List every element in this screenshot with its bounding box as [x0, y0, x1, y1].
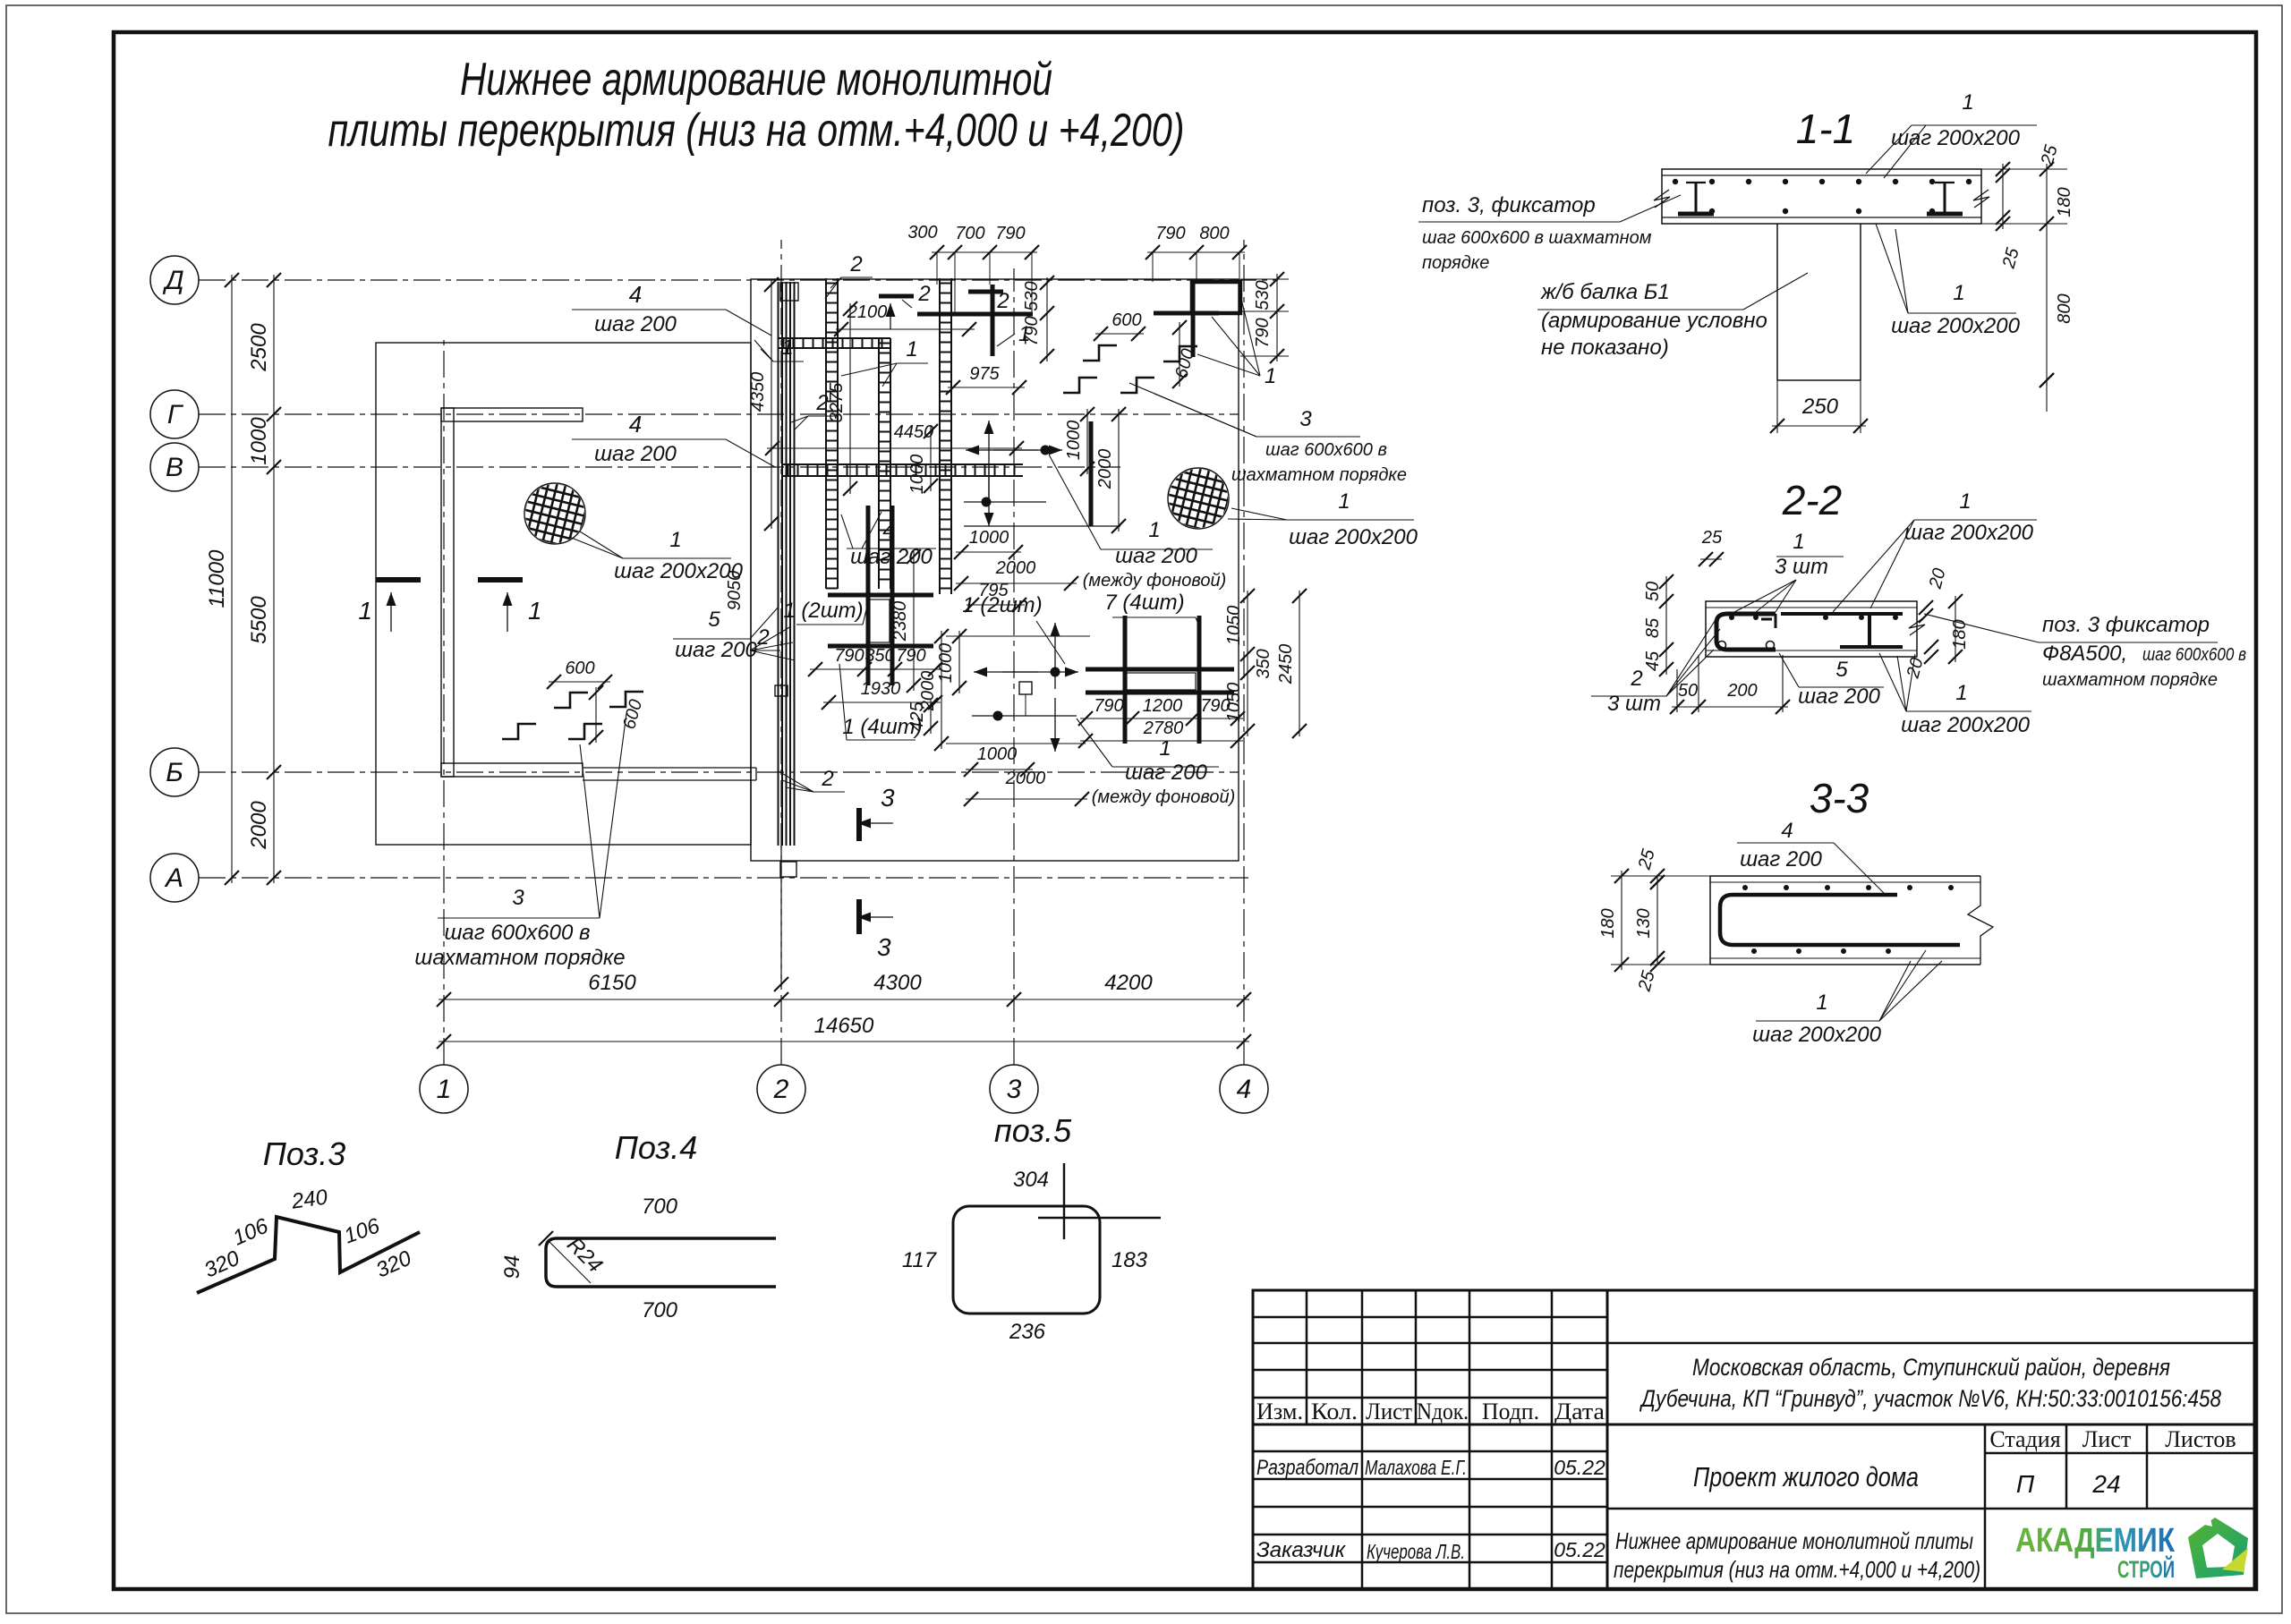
svg-text:шаг 200х200: шаг 200х200 — [1904, 521, 2034, 545]
svg-text:Дата: Дата — [1554, 1399, 1605, 1424]
svg-text:24: 24 — [2091, 1470, 2120, 1498]
svg-text:3: 3 — [1299, 407, 1312, 431]
svg-text:350: 350 — [1254, 649, 1273, 678]
svg-text:180: 180 — [1598, 908, 1618, 938]
svg-text:шахматном порядке: шахматном порядке — [2042, 670, 2218, 690]
svg-text:1: 1 — [1816, 991, 1827, 1015]
svg-text:3-3: 3-3 — [1810, 775, 1869, 821]
svg-text:2: 2 — [773, 1075, 789, 1104]
svg-text:шаг 200: шаг 200 — [1125, 761, 1207, 785]
svg-text:2000: 2000 — [1005, 769, 1046, 788]
svg-text:шаг 200: шаг 200 — [1740, 847, 1822, 872]
svg-text:шаг 200: шаг 200 — [850, 545, 933, 569]
svg-text:шаг 600х600 в: шаг 600х600 в — [2142, 645, 2246, 665]
svg-text:3 шт: 3 шт — [1775, 555, 1828, 579]
svg-text:Подп.: Подп. — [1482, 1399, 1539, 1424]
svg-text:АКАДЕМИК: АКАДЕМИК — [2015, 1522, 2176, 1560]
svg-text:Поз.4: Поз.4 — [615, 1129, 697, 1166]
svg-text:1: 1 — [1265, 364, 1276, 388]
svg-text:шахматном порядке: шахматном порядке — [1231, 465, 1407, 485]
svg-text:2450: 2450 — [1276, 644, 1296, 685]
svg-text:14650: 14650 — [814, 1014, 874, 1038]
svg-text:1000: 1000 — [247, 417, 271, 465]
svg-text:ж/б балка Б1: ж/б балка Б1 — [1540, 280, 1670, 304]
svg-text:В: В — [166, 453, 183, 482]
svg-text:1000: 1000 — [969, 528, 1009, 548]
svg-text:790: 790 — [995, 224, 1025, 243]
svg-text:700: 700 — [642, 1195, 678, 1219]
svg-text:183: 183 — [1111, 1248, 1148, 1272]
svg-text:шаг 200: шаг 200 — [675, 638, 757, 662]
svg-text:800: 800 — [2055, 293, 2074, 323]
svg-text:117: 117 — [902, 1248, 938, 1272]
svg-text:2: 2 — [849, 252, 862, 276]
svg-text:4300: 4300 — [873, 971, 922, 995]
svg-text:СТРОЙ: СТРОЙ — [2117, 1555, 2175, 1583]
svg-text:2: 2 — [996, 289, 1009, 313]
svg-text:шаг 200х200: шаг 200х200 — [1289, 525, 1418, 549]
svg-text:шаг 200х200: шаг 200х200 — [1901, 713, 2031, 737]
svg-text:Московская область, Ступинский: Московская область, Ступинский район, де… — [1692, 1354, 2170, 1381]
svg-text:П: П — [2016, 1470, 2035, 1498]
svg-text:Nдок.: Nдок. — [1417, 1399, 1469, 1424]
svg-text:530: 530 — [1253, 280, 1273, 310]
svg-text:1000: 1000 — [977, 744, 1018, 764]
svg-text:5500: 5500 — [247, 596, 271, 644]
svg-text:6150: 6150 — [588, 971, 636, 995]
svg-text:350: 350 — [864, 646, 894, 666]
svg-text:240: 240 — [289, 1185, 329, 1214]
svg-text:25: 25 — [1701, 528, 1723, 548]
svg-text:4: 4 — [1237, 1075, 1252, 1104]
svg-text:4: 4 — [629, 411, 642, 438]
svg-text:шаг 200: шаг 200 — [594, 442, 677, 466]
svg-text:4350: 4350 — [748, 372, 768, 412]
svg-text:шаг 200х200: шаг 200х200 — [1891, 314, 2021, 338]
svg-text:94: 94 — [500, 1255, 524, 1280]
svg-text:2500: 2500 — [247, 323, 271, 372]
svg-text:1-1: 1-1 — [1796, 106, 1855, 152]
svg-text:975: 975 — [969, 364, 1000, 384]
svg-text:(между фоновой): (между фоновой) — [1092, 787, 1236, 807]
svg-text:Б: Б — [166, 758, 183, 787]
svg-text:1000: 1000 — [936, 643, 956, 684]
svg-text:шаг 200х200: шаг 200х200 — [614, 559, 744, 583]
svg-text:530: 530 — [1022, 281, 1042, 310]
svg-text:2380: 2380 — [890, 601, 910, 642]
svg-text:Лист: Лист — [1366, 1399, 1412, 1424]
svg-text:790: 790 — [1094, 696, 1123, 716]
svg-text:1000: 1000 — [1064, 421, 1084, 461]
svg-text:790: 790 — [1253, 318, 1273, 347]
svg-text:3: 3 — [1007, 1075, 1022, 1104]
svg-text:3 шт: 3 шт — [1607, 692, 1661, 716]
svg-text:2000: 2000 — [247, 801, 271, 850]
svg-text:1930: 1930 — [861, 679, 901, 699]
svg-text:Изм.: Изм. — [1256, 1399, 1303, 1424]
svg-text:Поз.3: Поз.3 — [263, 1135, 345, 1172]
svg-text:(армирование условно: (армирование условно — [1541, 309, 1767, 333]
svg-text:Малахова Е.Г.: Малахова Е.Г. — [1365, 1456, 1467, 1479]
svg-text:800: 800 — [1199, 224, 1229, 243]
svg-text:Проект жилого дома: Проект жилого дома — [1693, 1461, 1919, 1492]
svg-text:шаг 200х200: шаг 200х200 — [1752, 1023, 1882, 1047]
svg-text:200: 200 — [1726, 681, 1757, 701]
svg-text:600: 600 — [1111, 310, 1141, 330]
svg-text:Д: Д — [162, 266, 183, 295]
svg-text:600: 600 — [565, 659, 594, 678]
svg-text:2000: 2000 — [995, 558, 1036, 578]
svg-text:790: 790 — [1022, 316, 1042, 345]
svg-text:1200: 1200 — [1143, 696, 1183, 716]
svg-text:4: 4 — [629, 281, 642, 308]
svg-text:3: 3 — [512, 886, 524, 910]
svg-text:795: 795 — [978, 581, 1009, 600]
svg-text:250: 250 — [1801, 395, 1839, 419]
svg-text:05.22: 05.22 — [1554, 1538, 1605, 1561]
svg-text:плиты перекрытия (низ на отм.+: плиты перекрытия (низ на отм.+4,000 и +4… — [328, 105, 1185, 157]
svg-text:304: 304 — [1013, 1168, 1049, 1192]
svg-text:1050: 1050 — [1224, 683, 1244, 723]
svg-text:790: 790 — [1155, 224, 1185, 243]
svg-text:1: 1 — [358, 597, 372, 625]
svg-text:3275: 3275 — [827, 382, 847, 422]
svg-text:1: 1 — [437, 1075, 452, 1104]
svg-text:1: 1 — [1962, 90, 1973, 115]
svg-text:1050: 1050 — [1224, 606, 1244, 646]
svg-text:Нижнее армирование монолитной: Нижнее армирование монолитной — [460, 54, 1052, 106]
svg-text:порядке: порядке — [1422, 253, 1489, 273]
svg-text:Г: Г — [167, 400, 184, 429]
svg-text:236: 236 — [1009, 1320, 1046, 1344]
svg-text:85: 85 — [1643, 617, 1663, 638]
svg-text:1: 1 — [1953, 281, 1964, 305]
svg-text:4200: 4200 — [1104, 971, 1153, 995]
svg-text:поз. 3, фиксатор: поз. 3, фиксатор — [1422, 193, 1596, 217]
svg-text:шаг 600х600 в шахматном: шаг 600х600 в шахматном — [1422, 228, 1652, 248]
svg-text:шаг 600х600 в: шаг 600х600 в — [444, 921, 590, 945]
svg-text:5: 5 — [708, 608, 720, 632]
svg-text:1: 1 — [1959, 489, 1971, 514]
svg-text:790: 790 — [834, 646, 864, 666]
svg-text:50: 50 — [1643, 582, 1663, 601]
svg-text:(между фоновой): (между фоновой) — [1083, 571, 1227, 591]
svg-text:2: 2 — [1630, 667, 1642, 691]
svg-text:1: 1 — [528, 597, 542, 625]
svg-text:3: 3 — [877, 933, 891, 961]
svg-text:перекрытия (низ на отм.+4,000: перекрытия (низ на отм.+4,000 и +4,200) — [1614, 1556, 1980, 1583]
svg-text:Нижнее армирование монолитной: Нижнее армирование монолитной плиты — [1615, 1527, 1973, 1554]
svg-text:Лист: Лист — [2082, 1426, 2131, 1452]
svg-text:130: 130 — [1634, 908, 1654, 938]
svg-text:50: 50 — [1678, 681, 1698, 701]
svg-text:Кол.: Кол. — [1311, 1399, 1358, 1424]
svg-text:1: 1 — [669, 528, 681, 552]
svg-text:9050: 9050 — [725, 571, 745, 611]
svg-text:05.22: 05.22 — [1554, 1456, 1605, 1479]
svg-text:Стадия: Стадия — [1989, 1426, 2060, 1452]
svg-text:3: 3 — [881, 784, 895, 812]
svg-text:поз.5: поз.5 — [994, 1112, 1072, 1149]
svg-text:1: 1 — [1955, 681, 1967, 705]
svg-text:11000: 11000 — [205, 549, 229, 608]
svg-text:не показано): не показано) — [1541, 336, 1669, 360]
svg-text:2: 2 — [917, 282, 930, 306]
svg-text:Разработал: Разработал — [1256, 1456, 1358, 1480]
svg-text:2-2: 2-2 — [1782, 477, 1842, 523]
svg-text:поз. 3 фиксатор: поз. 3 фиксатор — [2042, 613, 2210, 637]
svg-text:1: 1 — [906, 337, 917, 361]
svg-text:180: 180 — [2055, 187, 2074, 217]
svg-text:шаг 200: шаг 200 — [1798, 684, 1880, 709]
svg-text:1: 1 — [1338, 489, 1350, 514]
svg-text:1 (2шт): 1 (2шт) — [783, 599, 863, 623]
svg-text:шаг 200х200: шаг 200х200 — [1891, 126, 2021, 150]
svg-text:4: 4 — [882, 519, 894, 543]
svg-text:5: 5 — [1835, 658, 1848, 682]
svg-text:4: 4 — [1781, 819, 1793, 843]
svg-text:790: 790 — [896, 646, 925, 666]
svg-text:180: 180 — [1950, 619, 1970, 649]
svg-text:45: 45 — [1643, 650, 1663, 671]
svg-text:Кучерова Л.В.: Кучерова Л.В. — [1367, 1540, 1465, 1563]
svg-text:Ф8А500,: Ф8А500, — [2042, 642, 2127, 666]
svg-text:1: 1 — [781, 336, 793, 360]
svg-text:1: 1 — [1159, 736, 1171, 761]
svg-text:шаг 600х600 в: шаг 600х600 в — [1265, 440, 1387, 460]
svg-text:700: 700 — [642, 1298, 678, 1322]
svg-text:шахматном порядке: шахматном порядке — [414, 946, 625, 970]
svg-text:300: 300 — [907, 223, 937, 242]
svg-text:Дубечина, КП “Гринвуд”, участо: Дубечина, КП “Гринвуд”, участок №V6, КН:… — [1639, 1385, 2221, 1412]
svg-text:шаг 200: шаг 200 — [1115, 544, 1197, 568]
svg-text:2000: 2000 — [1095, 449, 1115, 490]
svg-text:1: 1 — [1148, 518, 1160, 542]
svg-text:2: 2 — [821, 767, 833, 791]
svg-text:7 (4шт): 7 (4шт) — [1104, 591, 1184, 615]
svg-text:А: А — [164, 863, 183, 893]
svg-text:Листов: Листов — [2165, 1426, 2236, 1452]
svg-text:Заказчик: Заказчик — [1256, 1538, 1347, 1562]
svg-text:1: 1 — [1793, 530, 1804, 554]
svg-text:2780: 2780 — [1143, 718, 1184, 738]
svg-text:4450: 4450 — [894, 422, 934, 442]
svg-text:1000: 1000 — [907, 455, 927, 495]
svg-text:шаг 200: шаг 200 — [594, 312, 677, 336]
svg-text:700: 700 — [955, 224, 984, 243]
svg-text:425: 425 — [907, 701, 927, 731]
